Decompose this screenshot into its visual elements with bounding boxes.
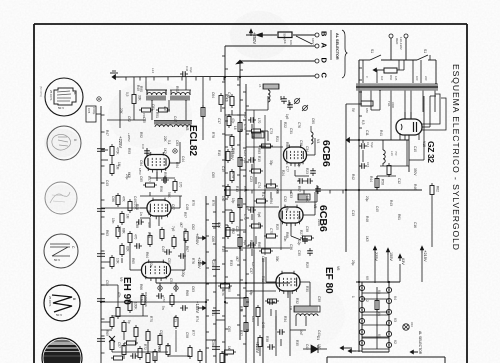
heater loop left 3 — [359, 307, 364, 312]
svg-text:C71: C71 — [231, 172, 235, 178]
wire IF strip seg2 — [246, 109, 268, 111]
heater loop right 6 — [386, 342, 391, 347]
wire audio block seg13 — [150, 177, 175, 179]
wire rail x101 — [100, 106, 102, 363]
capacitor C78 1500pF — [86, 106, 96, 122]
wire ECL82 cathode — [156, 172, 158, 181]
caps below V5 — [302, 238, 308, 240]
svg-text:GZ 32: GZ 32 — [426, 141, 436, 163]
svg-text:C64: C64 — [211, 92, 215, 98]
capacitor C50 250uF — [158, 293, 160, 299]
svg-text:0,5: 0,5 — [125, 92, 129, 97]
svg-text:1n5: 1n5 — [221, 196, 225, 202]
IF coupling caps — [250, 117, 252, 123]
svg-text:50 V: 50 V — [54, 258, 60, 262]
resistor IF mid 4 — [267, 184, 276, 188]
svg-text:C15: C15 — [366, 162, 370, 168]
svg-text:155V: 155V — [389, 252, 393, 261]
svg-text:68p: 68p — [249, 290, 253, 296]
EF80 area caps — [269, 299, 271, 305]
svg-text:1K: 1K — [283, 40, 287, 44]
svg-text:C52: C52 — [105, 280, 109, 286]
svg-text:1500p: 1500p — [92, 107, 96, 115]
wire PSU block seg4 — [362, 140, 364, 143]
wire audio block seg33 — [101, 261, 110, 263]
svg-text:C74: C74 — [257, 182, 261, 188]
svg-text:C80: C80 — [311, 118, 315, 124]
svg-text:C76: C76 — [297, 122, 301, 128]
svg-text:R95: R95 — [163, 172, 167, 178]
wire EF80 block seg2 — [265, 262, 267, 282]
svg-text:33K: 33K — [138, 95, 142, 102]
resistor IF column A 10 — [226, 228, 230, 237]
wire IF strip seg11 — [294, 170, 296, 176]
pentode section tube V8 ECL82 — [145, 155, 170, 170]
svg-text:V3: V3 — [393, 318, 397, 322]
node dot on rail x101 — [97, 97, 101, 101]
wire audio block seg34 — [147, 342, 149, 352]
svg-text:22p: 22p — [297, 162, 301, 168]
heater ladder middle rail — [376, 287, 378, 349]
capacitor C46 40uF — [182, 71, 184, 77]
svg-text:47n: 47n — [117, 292, 121, 298]
output transformer T3 secondary — [171, 93, 190, 95]
svg-text:R17: R17 — [261, 192, 265, 198]
svg-text:1n: 1n — [139, 212, 143, 216]
svg-text:25 CPS: 25 CPS — [48, 296, 52, 306]
svg-text:C87: C87 — [171, 204, 175, 210]
heater ladder bottom-left arrow — [348, 350, 356, 352]
X mark pot — [109, 336, 115, 342]
svg-text:(50 CPS): (50 CPS) — [39, 86, 43, 97]
IF coil can B — [298, 194, 310, 200]
svg-text:R66: R66 — [139, 284, 143, 290]
resistor IF column A 3 — [230, 137, 234, 146]
svg-text:4,7K: 4,7K — [221, 290, 225, 296]
svg-text:40µF: 40µF — [189, 67, 193, 73]
svg-text:68K: 68K — [122, 228, 126, 235]
svg-text:A: A — [320, 43, 329, 49]
svg-text:V4: V4 — [393, 296, 397, 300]
svg-text:15n: 15n — [111, 218, 115, 224]
resistor IF mid 1 — [252, 129, 261, 133]
svg-text:C82: C82 — [127, 116, 131, 122]
svg-text:6CB6: 6CB6 — [317, 205, 329, 232]
wire IF strip seg26 — [260, 145, 266, 147]
wire IF strip seg4 — [246, 130, 251, 132]
heater loop right 2 — [386, 298, 391, 303]
node dot near ECL82 — [173, 149, 177, 153]
arrow bottom wire — [340, 347, 352, 349]
resistor 47K ladder left — [116, 196, 120, 205]
svg-text:C41: C41 — [317, 330, 321, 336]
ground arrow at audio bus — [114, 76, 119, 78]
svg-text:1M: 1M — [117, 162, 121, 167]
stubs rail x101 — [101, 114, 105, 116]
wire rail x206 — [205, 196, 207, 363]
wire x276 bottom — [275, 310, 277, 356]
svg-text:R82: R82 — [231, 228, 235, 234]
svg-text:C44: C44 — [181, 156, 185, 162]
svg-text:C46: C46 — [185, 66, 189, 72]
wire IF strip seg31 — [288, 100, 290, 106]
wire transformer right drop — [435, 60, 437, 84]
svg-text:R96: R96 — [135, 204, 139, 210]
resistor 100R under EF80 — [268, 299, 277, 303]
heater chain bottom link — [362, 351, 389, 353]
svg-text:C13: C13 — [351, 210, 355, 216]
svg-text:+650V: +650V — [195, 233, 200, 245]
svg-text:470: 470 — [134, 234, 138, 240]
svg-text:C36: C36 — [289, 244, 293, 250]
svg-text:2p2: 2p2 — [243, 158, 247, 164]
heater chain bus top — [356, 281, 400, 283]
coil above V4 — [311, 132, 313, 144]
slant wire to A terminal — [296, 36, 312, 44]
terminal A — [315, 44, 319, 48]
svg-text:6CB6: 6CB6 — [320, 140, 332, 167]
wire IF strip seg3 — [225, 114, 246, 116]
resistor 1M ladder left — [120, 214, 124, 223]
svg-text:C88: C88 — [135, 222, 139, 228]
svg-text:R30: R30 — [305, 286, 309, 292]
wire audio block seg30 — [140, 217, 150, 219]
wire EF80 block seg3 — [287, 291, 289, 298]
stubs rail x225 — [222, 55, 225, 57]
EF80 area resistors — [244, 298, 248, 307]
wire IF strip seg9 — [306, 154, 315, 156]
voltage arrow 155V — [387, 249, 389, 255]
svg-text:C30: C30 — [299, 140, 303, 146]
svg-text:+250V: +250V — [252, 32, 257, 44]
svg-text:C86: C86 — [111, 196, 115, 202]
svg-text:R24: R24 — [281, 170, 285, 176]
svg-text:C89: C89 — [183, 228, 187, 234]
wire GZ32 bottom to bus — [406, 140, 408, 166]
wire PSU block seg13 — [422, 104, 424, 112]
svg-text:L14: L14 — [151, 68, 155, 73]
svg-text:33K: 33K — [275, 256, 279, 263]
svg-text:R68: R68 — [185, 290, 189, 296]
svg-text:1: 1 — [351, 296, 355, 298]
svg-text:L9: L9 — [245, 206, 249, 210]
svg-text:C29: C29 — [211, 260, 215, 266]
wire IF strip seg12 — [295, 175, 309, 177]
svg-text:6K8: 6K8 — [127, 172, 131, 178]
svg-text:C53: C53 — [169, 278, 173, 284]
wire IF strip seg33 — [220, 107, 222, 112]
resistor bottom-left cluster 9 — [166, 346, 170, 355]
svg-text:R20: R20 — [249, 240, 253, 246]
svg-text:R91: R91 — [175, 86, 179, 92]
svg-text:C16: C16 — [413, 222, 417, 228]
svg-text:R31: R31 — [261, 276, 265, 282]
heater loop left 1 — [359, 285, 364, 290]
terminal bus under EH90 — [156, 282, 290, 284]
svg-text:C23: C23 — [249, 176, 253, 182]
wire audio block seg4 — [133, 106, 135, 120]
wire audio block seg28 — [112, 351, 168, 353]
waveform circle C (faint curve) — [45, 182, 77, 214]
wire EF80 block seg8 — [275, 316, 277, 330]
wire GZ32 cathode right — [422, 126, 430, 128]
wire audio block seg27 — [112, 315, 148, 317]
svg-text:180V: 180V — [311, 38, 315, 45]
wire audio block seg38 — [167, 343, 169, 347]
svg-text:AL SELECTOR: AL SELECTOR — [418, 331, 422, 355]
wire IF strip seg23 — [225, 134, 232, 136]
wire PSU bottom bus — [358, 190, 360, 200]
svg-text:110: 110 — [380, 76, 384, 81]
component cluster right of EH90 — [170, 296, 174, 305]
svg-text:C62: C62 — [191, 224, 195, 230]
resistor 220K ladder left — [128, 202, 132, 211]
svg-text:TH1: TH1 — [387, 101, 391, 107]
svg-text:5p6: 5p6 — [257, 212, 261, 218]
svg-text:R93: R93 — [127, 148, 131, 154]
resistor bottom-left cluster 4 — [146, 332, 150, 341]
svg-text:22n: 22n — [149, 262, 153, 268]
trimmer capacitor top right 2 — [303, 106, 308, 111]
scan smudge background — [108, 81, 192, 148]
wire IF strip seg29 — [265, 257, 267, 262]
resistor 82K ladder left — [120, 246, 124, 255]
svg-text:L7: L7 — [251, 136, 255, 140]
wire IF strip seg27 — [270, 192, 272, 198]
rectifier tube GZ32 — [396, 119, 422, 135]
svg-text:12p: 12p — [297, 240, 301, 246]
transformer primary extra drops — [362, 60, 364, 83]
wire audio block seg2 — [145, 77, 147, 90]
wire audio block seg12 — [156, 172, 158, 181]
wire IF strip seg18 — [225, 229, 246, 231]
heater loop left 5 — [359, 329, 364, 334]
wire IF strip seg16 — [290, 223, 292, 236]
resistor IF column A 4 — [226, 152, 230, 161]
heater loop right 4 — [386, 320, 391, 325]
svg-text:1K2: 1K2 — [163, 148, 167, 154]
svg-text:D1: D1 — [316, 336, 320, 340]
svg-text:R73: R73 — [173, 316, 177, 322]
svg-text:V6: V6 — [336, 266, 340, 270]
resistor R60 on primary — [384, 68, 397, 73]
wire IF strip seg10 — [314, 138, 316, 155]
wire audio block seg31 — [149, 218, 151, 228]
svg-text:C61: C61 — [251, 316, 255, 322]
speaker coil pair — [155, 125, 173, 127]
wire audio block seg22 — [184, 238, 186, 270]
svg-text:V16: V16 — [410, 322, 414, 327]
waveform circle D (trapezoid wave) — [44, 234, 78, 268]
wire IF strip seg1 — [267, 96, 269, 110]
wire audio block seg18 — [164, 176, 166, 184]
resistor IF column A 5 — [238, 158, 242, 167]
svg-text:R12: R12 — [243, 112, 247, 118]
svg-text:C28: C28 — [261, 256, 265, 262]
stubs bus y77 — [125, 77, 127, 81]
wire EF80 block seg6 — [246, 290, 276, 292]
wire PSU block seg11 — [404, 112, 406, 119]
wire right PSU riser — [423, 96, 425, 160]
resistor IF mid 6 — [252, 224, 261, 228]
svg-text:10K: 10K — [116, 258, 120, 265]
wire EF80 block seg17 — [216, 319, 225, 321]
resistor bottom-left cluster 7 — [138, 349, 142, 358]
resistor IF mid 5 — [257, 199, 266, 203]
output transformer T3 primary — [147, 93, 166, 95]
stubs rail x246 — [243, 91, 246, 93]
wire IF strip seg24 — [240, 169, 246, 171]
wire EF80 block seg9 — [257, 319, 259, 326]
triode section tube V8b — [147, 200, 171, 216]
svg-text:+225V: +225V — [197, 257, 202, 269]
resistor IF column A 7 — [226, 187, 230, 196]
svg-text:V6: V6 — [377, 312, 381, 316]
svg-text:C21: C21 — [243, 150, 247, 156]
waveform circle B (tube socket, faint) — [47, 126, 81, 160]
wire audio block seg11 — [179, 142, 181, 163]
wire rail x225 — [224, 46, 226, 363]
wire IF strip seg25 — [225, 209, 232, 211]
wire EF80 block seg14 — [305, 316, 307, 326]
capacitor ticks on rail x101 — [97, 148, 105, 150]
svg-text:50 V: 50 V — [56, 313, 62, 317]
wire bus y302 — [101, 301, 206, 303]
wire audio block seg10 — [170, 162, 180, 164]
svg-text:C26: C26 — [257, 222, 261, 228]
svg-text:56K: 56K — [167, 192, 171, 199]
wire EF80 block seg7 — [245, 334, 247, 340]
svg-text:C79: C79 — [297, 216, 301, 222]
wire PSU block seg2 — [360, 90, 362, 104]
svg-text:5n: 5n — [161, 306, 165, 310]
svg-text:R29: R29 — [305, 262, 309, 268]
svg-text:R41: R41 — [379, 130, 383, 136]
svg-text:2M2: 2M2 — [117, 226, 121, 232]
resistor bottom-left cluster 5 — [110, 341, 114, 350]
svg-text:R36: R36 — [239, 306, 243, 312]
svg-text:C51: C51 — [167, 258, 171, 264]
svg-text:C44: C44 — [173, 116, 177, 122]
svg-text:R47: R47 — [105, 130, 109, 136]
tube V6 EF80 — [276, 273, 300, 291]
wire to terminal A — [225, 45, 315, 47]
svg-text:C84: C84 — [139, 160, 143, 166]
svg-text:C49: C49 — [133, 196, 137, 202]
svg-text:8p2: 8p2 — [243, 240, 247, 246]
tube V9 EH90 — [142, 262, 171, 278]
svg-text:R43: R43 — [389, 200, 393, 206]
svg-text:R60: R60 — [389, 75, 393, 81]
caps above EH90 — [166, 249, 168, 255]
resistor 10K ladder left — [110, 258, 114, 267]
resistor IF column A 6 — [230, 172, 234, 181]
wire to terminal D — [240, 60, 315, 62]
heater chain right rail — [388, 282, 390, 352]
svg-text:R10: R10 — [217, 150, 221, 156]
wire audio block seg5 — [134, 119, 146, 121]
resistor cluster above EH90 — [148, 236, 152, 245]
wire audio block seg24 — [159, 283, 161, 292]
wire audio block seg6 — [107, 119, 134, 121]
wire audio block seg3 — [185, 77, 187, 90]
wire rail x216 — [215, 196, 217, 363]
svg-text:R23: R23 — [305, 168, 309, 174]
svg-text:R86: R86 — [285, 142, 289, 148]
wire audio block seg21 — [171, 269, 185, 271]
resistor horizontal bottom — [127, 341, 136, 345]
terminal C — [315, 74, 319, 78]
wire IF strip seg32 — [231, 110, 233, 115]
wire audio block seg23 — [155, 278, 157, 283]
svg-text:R92: R92 — [139, 132, 143, 138]
svg-text:C58: C58 — [185, 332, 189, 338]
voltage arrow 235V — [374, 247, 376, 253]
svg-text:C35: C35 — [297, 250, 301, 256]
wire PSU block seg3 — [362, 150, 364, 162]
svg-text:110-130V: 110-130V — [399, 37, 403, 50]
bus y248 — [225, 247, 290, 249]
svg-text:R48: R48 — [365, 216, 369, 222]
label +250V — [250, 30, 252, 36]
resistor bottom-left cluster 1 — [110, 318, 114, 327]
svg-text:15p: 15p — [231, 198, 235, 204]
svg-text:R74: R74 — [195, 316, 199, 322]
svg-text:1K5: 1K5 — [365, 236, 369, 242]
svg-text:V5: V5 — [377, 334, 381, 338]
resistor 470 ladder left — [128, 234, 132, 243]
svg-text:L70: L70 — [257, 118, 261, 124]
svg-text:750: 750 — [394, 151, 398, 156]
svg-text:R69: R69 — [105, 330, 109, 336]
svg-text:R63: R63 — [105, 230, 109, 236]
svg-text:R57: R57 — [147, 176, 151, 182]
svg-text:AL SELECTOR: AL SELECTOR — [335, 33, 339, 60]
wire PSU block seg7 — [379, 100, 381, 110]
svg-text:C43: C43 — [105, 180, 109, 186]
svg-text:+265V: +265V — [127, 133, 131, 142]
wire PSU block seg12 — [410, 112, 412, 119]
wire IF strip seg35 — [270, 179, 272, 186]
svg-text:L16: L16 — [390, 151, 394, 156]
svg-text:C14: C14 — [366, 142, 370, 148]
svg-text:C66: C66 — [211, 236, 215, 242]
svg-text:C31: C31 — [289, 128, 293, 134]
wire EF80 block seg10 — [259, 349, 261, 356]
decoupling caps right of V4 — [310, 170, 316, 172]
svg-text:+215V: +215V — [423, 250, 428, 262]
svg-text:S1: S1 — [370, 49, 374, 53]
svg-text:C37: C37 — [249, 268, 253, 274]
label +225V mid — [198, 262, 206, 264]
svg-text:V4: V4 — [316, 139, 320, 143]
svg-text:C59: C59 — [227, 286, 231, 292]
resistor R54 — [110, 165, 114, 174]
wire IF strip seg8 — [246, 146, 283, 148]
wire EF80 block seg5 — [309, 282, 311, 306]
svg-text:R70: R70 — [149, 316, 153, 322]
svg-text:R19: R19 — [221, 246, 225, 252]
arrow on B wire — [259, 34, 271, 36]
wire audio block seg7 — [101, 149, 108, 151]
svg-text:47K: 47K — [122, 196, 126, 203]
wire PSU block seg1 — [346, 103, 361, 105]
resistor IF mid 3 — [252, 169, 261, 173]
svg-text:D: D — [320, 58, 329, 64]
wire GZ32 to filter — [408, 135, 410, 172]
bottom double rail — [253, 250, 255, 363]
svg-text:R32: R32 — [295, 298, 299, 304]
